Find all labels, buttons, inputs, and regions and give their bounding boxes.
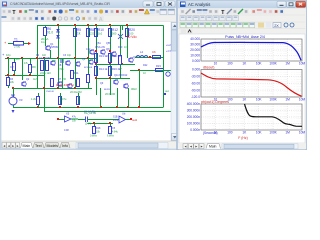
svg-text:►: ► [12,144,15,148]
svg-text:-30.00: -30.00 [191,75,200,79]
svg-text:4.84u: 4.84u [112,131,119,134]
svg-text:20.000: 20.000 [190,48,200,52]
svg-text:200.000n: 200.000n [187,115,201,119]
svg-text:R14 1k: R14 1k [99,67,108,71]
svg-text:R11: R11 [74,71,79,75]
svg-text:Q5B: Q5B [106,42,111,45]
svg-text:1M: 1M [285,98,290,102]
svg-text:+30 Vdc: +30 Vdc [125,35,137,39]
svg-text:560: 560 [112,32,117,36]
svg-text:C:\MC9\DATA\Antoine\Vumat_MB-4: C:\MC9\DATA\Antoine\Vumat_MB-4P4\Vumat_M… [10,2,110,6]
svg-text:0.000: 0.000 [192,59,200,63]
svg-text:1N4148: 1N4148 [46,91,54,93]
svg-text:R22: R22 [143,64,148,67]
svg-text:BD911: BD911 [104,89,111,91]
svg-text:10M: 10M [299,131,306,135]
svg-text:L4: L4 [140,50,144,54]
svg-text:4u7: 4u7 [16,58,21,61]
svg-text:AC Analysis: AC Analysis [188,2,210,7]
svg-text:1.2k: 1.2k [31,97,37,101]
svg-text:1M: 1M [285,62,290,66]
svg-text:out: out [165,89,169,93]
svg-text:20.0e0M: 20.0e0M [105,92,115,96]
svg-text:47u: 47u [72,116,77,119]
svg-text:0R22: 0R22 [131,88,137,91]
svg-text:R13 3k9: R13 3k9 [99,54,109,58]
svg-text:►: ► [16,144,19,148]
svg-text:-90.00: -90.00 [191,88,200,92]
svg-text:2N5551: 2N5551 [50,46,59,49]
svg-text:400.000n: 400.000n [187,102,201,106]
svg-text:220u 1k0: 220u 1k0 [40,71,51,75]
svg-text:Ub: Ub [122,112,126,116]
svg-text:1k0: 1k0 [42,54,47,57]
svg-text:T1: T1 [14,38,18,42]
svg-text:4u7: 4u7 [33,77,38,81]
svg-text:F (Hz): F (Hz) [238,136,247,140]
svg-text:8k2: 8k2 [52,60,57,63]
svg-text:◄: ◄ [184,145,187,149]
svg-text:100K: 100K [269,98,277,102]
svg-text:Models: Models [47,144,59,148]
svg-text:◄: ◄ [3,144,6,148]
svg-text:-120.0: -120.0 [191,95,200,99]
svg-text:24.0n: 24.0n [113,119,120,122]
svg-text:220: 220 [90,32,95,36]
svg-text:-60.00: -60.00 [191,82,200,86]
svg-text:6.8Ris: 6.8Ris [107,135,115,138]
svg-text:ph(out1) Degrees: ph(out1) Degrees [201,100,229,104]
svg-text:A: A [99,17,103,23]
svg-text:0.8Ris: 0.8Ris [90,135,98,138]
svg-text:40.000: 40.000 [190,37,200,41]
svg-text:47u: 47u [62,97,67,101]
svg-text:◄: ◄ [7,144,10,148]
svg-text:+L2: +L2 [166,43,171,47]
svg-text:100: 100 [227,62,233,66]
svg-text:R10: R10 [98,28,104,32]
svg-text:out2: out2 [132,118,138,122]
svg-text:0.000n: 0.000n [190,128,200,132]
svg-text:0.000: 0.000 [192,68,200,72]
svg-text:Q5A 2N: Q5A 2N [95,45,105,49]
svg-text:C2: C2 [10,65,14,69]
svg-text:(Seconds): (Seconds) [203,131,218,135]
svg-text:100K: 100K [269,131,277,135]
svg-text:R19: R19 [118,46,123,49]
svg-text:100.000n: 100.000n [187,122,201,126]
svg-text:X5: X5 [66,112,70,116]
svg-text:10K: 10K [256,98,263,102]
svg-text:2700: 2700 [14,45,21,49]
svg-text:100: 100 [227,131,233,135]
svg-text:30.000: 30.000 [190,43,200,47]
svg-text:Text: Text [35,144,42,148]
svg-text:1M: 1M [285,131,290,135]
svg-text:45.41 -64F 0.14: 45.41 -64F 0.14 [56,84,74,87]
svg-text:300.000n: 300.000n [187,109,201,113]
svg-text:R20: R20 [129,28,135,32]
svg-text:0.98: 0.98 [64,129,69,132]
svg-text:10p: 10p [67,54,72,57]
svg-text:Q11 BD912: Q11 BD912 [114,73,128,77]
svg-text:10M: 10M [299,98,306,102]
svg-text:150: 150 [62,78,67,81]
svg-text:10.000: 10.000 [190,54,200,58]
svg-text:R9: R9 [32,65,36,69]
svg-text:db(out): db(out) [203,65,214,69]
svg-text:10K: 10K [256,131,263,135]
svg-text:1k: 1k [77,32,81,36]
svg-text:C6: C6 [152,50,156,54]
svg-text:1G: 1G [41,40,45,44]
svg-text:1k2: 1k2 [98,32,103,36]
svg-text:91.0: 91.0 [47,31,53,35]
svg-text:R12: R12 [112,28,118,32]
svg-text:C12: C12 [86,48,91,51]
svg-text:20.04e0M: 20.04e0M [70,90,82,94]
svg-text:Main: Main [209,145,216,149]
svg-text:Main: Main [23,144,31,148]
svg-text:►: ► [195,145,198,149]
svg-text:R8: R8 [90,28,94,32]
svg-text:BC546B: BC546B [84,67,93,69]
svg-text:►: ► [200,145,203,149]
svg-text:10M: 10M [299,62,306,66]
svg-text:Puiss_NB+Mid_Asse 2/4: Puiss_NB+Mid_Asse 2/4 [225,35,265,39]
svg-text:2X: 2X [274,24,279,28]
svg-text:R23: R23 [156,64,161,68]
svg-text:V3: V3 [19,98,23,102]
svg-text:Q5A: Q5A [96,42,101,45]
svg-text:10K: 10K [256,62,263,66]
svg-text:◄: ◄ [189,145,192,149]
svg-text:C4 24.32n: C4 24.32n [84,110,97,114]
svg-text:100K: 100K [269,62,277,66]
svg-text:10p: 10p [6,53,11,57]
svg-text:Info: Info [62,144,68,148]
